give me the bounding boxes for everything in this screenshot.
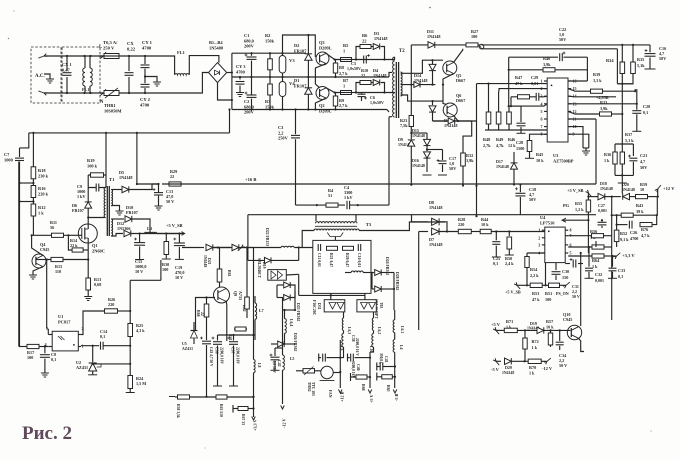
svg-text:L6,4: L6,4 bbox=[289, 319, 293, 326]
svg-text:22: 22 bbox=[362, 38, 366, 43]
svg-text:R68: R68 bbox=[361, 384, 365, 391]
svg-text:C10 0,01: C10 0,01 bbox=[357, 253, 361, 267]
svg-text:C20: C20 bbox=[643, 104, 650, 109]
svg-text:FR107: FR107 bbox=[72, 208, 84, 213]
svg-text:10 k: 10 k bbox=[546, 325, 554, 330]
rail pair to right bbox=[482, 44, 651, 46]
svg-text:10 V: 10 V bbox=[135, 269, 143, 274]
long rail y214.5 bbox=[248, 214, 596, 216]
svg-text:Q3: Q3 bbox=[319, 40, 325, 45]
svg-text:0,1: 0,1 bbox=[100, 334, 105, 339]
svg-text:R37: R37 bbox=[625, 132, 632, 137]
svg-text:C42: C42 bbox=[277, 360, 281, 367]
-5V output column bbox=[394, 310, 396, 320]
pin13 wire C20 bbox=[568, 103, 637, 105]
svg-text:8: 8 bbox=[570, 228, 572, 233]
Q10 emitter down bbox=[579, 338, 585, 351]
wire Q4 base down to U1 pin3 bbox=[46, 260, 48, 329]
pin11 wire to +16V riser bbox=[568, 118, 596, 120]
svg-text:1N4148: 1N4148 bbox=[444, 123, 458, 128]
svg-text:Рис. 2: Рис. 2 bbox=[22, 423, 72, 444]
svg-text:0,001: 0,001 bbox=[595, 278, 604, 283]
svg-text:R57: R57 bbox=[546, 319, 553, 324]
svg-text:1: 1 bbox=[538, 228, 540, 233]
svg-text:FL1: FL1 bbox=[82, 87, 89, 92]
ties from C7 line to divider bbox=[20, 182, 34, 184]
svg-text:R51: R51 bbox=[545, 291, 552, 296]
wire x137 from +16 node up to rail bbox=[136, 133, 138, 184]
zener pair at Q6 bbox=[432, 101, 434, 105]
svg-text:4,7 k: 4,7 k bbox=[641, 233, 650, 238]
svg-text:1 k: 1 k bbox=[38, 210, 44, 215]
svg-text:AZ431: AZ431 bbox=[76, 365, 88, 370]
svg-text:220 k: 220 k bbox=[38, 191, 49, 196]
svg-text:1N4148: 1N4148 bbox=[429, 205, 443, 210]
svg-text:+3,3 V: +3,3 V bbox=[622, 253, 635, 258]
C31 2,2 bbox=[565, 263, 570, 265]
capacitor C43 4,7 bbox=[200, 337, 203, 340]
svg-text:R67 33: R67 33 bbox=[241, 414, 245, 425]
svg-text:FR107: FR107 bbox=[294, 48, 307, 53]
rail y133 bbox=[29, 132, 230, 134]
svg-text:200V: 200V bbox=[244, 44, 255, 49]
svg-text:L3: L3 bbox=[147, 226, 153, 231]
svg-text:10 V: 10 V bbox=[175, 275, 183, 280]
svg-text:C21: C21 bbox=[640, 153, 647, 158]
svg-text:R34: R34 bbox=[606, 58, 614, 63]
svg-text:R6: R6 bbox=[362, 33, 368, 38]
svg-text:U3: U3 bbox=[553, 153, 559, 158]
svg-text:R63 510: R63 510 bbox=[219, 404, 223, 417]
svg-text:0,47: 0,47 bbox=[62, 67, 70, 72]
capacitor CX1 bbox=[66, 56, 68, 71]
svg-text:R35: R35 bbox=[637, 57, 644, 62]
svg-text:TTC 103: TTC 103 bbox=[311, 382, 315, 396]
svg-text:1 k: 1 k bbox=[532, 345, 538, 350]
svg-text:10 k: 10 k bbox=[536, 158, 544, 163]
svg-text:Q2: Q2 bbox=[319, 103, 325, 108]
svg-text:1500: 1500 bbox=[516, 146, 524, 151]
svg-text:2,4 k: 2,4 k bbox=[505, 261, 514, 266]
snubber box R20/R21/C10/C11 bbox=[313, 240, 371, 293]
svg-text:4700: 4700 bbox=[236, 69, 246, 74]
svg-text:1N4148: 1N4148 bbox=[119, 175, 133, 180]
zener pair at Q5 bbox=[432, 60, 434, 64]
wire L top bbox=[44, 55, 103, 57]
svg-text:T3: T3 bbox=[366, 222, 372, 227]
svg-text:50 V: 50 V bbox=[559, 363, 567, 368]
svg-text:100 k: 100 k bbox=[87, 163, 98, 168]
svg-text:R52: R52 bbox=[620, 231, 627, 236]
svg-text:1N4148: 1N4148 bbox=[427, 34, 441, 39]
svg-text:D667: D667 bbox=[456, 78, 465, 83]
svg-text:R61: R61 bbox=[227, 270, 231, 277]
svg-text:R54: R54 bbox=[530, 267, 538, 272]
svg-text:R53: R53 bbox=[532, 291, 539, 296]
svg-text:1N4148: 1N4148 bbox=[502, 371, 514, 375]
svg-text:T2: T2 bbox=[399, 49, 405, 54]
svg-text:1N4148: 1N4148 bbox=[496, 164, 509, 169]
secondary right lead bbox=[359, 222, 445, 231]
svg-text:T03: T03 bbox=[379, 302, 383, 308]
svg-text:U5: U5 bbox=[182, 342, 187, 346]
svg-text:+5 V_SB: +5 V_SB bbox=[505, 290, 521, 295]
svg-text:1 kV: 1 kV bbox=[344, 195, 353, 200]
svg-text:PC817: PC817 bbox=[58, 319, 71, 324]
svg-text:110: 110 bbox=[55, 269, 61, 274]
svg-text:D1: D1 bbox=[294, 78, 299, 83]
svg-text:2200,0 10V: 2200,0 10V bbox=[220, 347, 224, 364]
svg-text:2,2: 2,2 bbox=[278, 130, 284, 135]
svg-text:R2: R2 bbox=[265, 33, 270, 38]
T1 primary top from rail bbox=[105, 133, 107, 188]
T1 secondary lower to ground bbox=[111, 206, 119, 209]
svg-text:F16C20C: F16C20C bbox=[312, 300, 316, 316]
svg-text:+5 V_SB: +5 V_SB bbox=[567, 188, 584, 193]
svg-text:2,7 k: 2,7 k bbox=[339, 71, 348, 76]
rail +16V right end up bbox=[595, 121, 597, 184]
svg-text:C945: C945 bbox=[563, 317, 572, 322]
svg-text:10S050M: 10S050M bbox=[104, 108, 122, 113]
svg-text:C2: C2 bbox=[244, 99, 249, 104]
svg-text:1N4148: 1N4148 bbox=[203, 255, 207, 267]
secondary left lead bbox=[302, 231, 314, 248]
Q3 emitter to Q2 base bbox=[315, 64, 326, 88]
svg-text:R19: R19 bbox=[87, 158, 95, 163]
svg-text:1N4148: 1N4148 bbox=[374, 36, 388, 41]
big left arrow bbox=[562, 219, 588, 221]
svg-text:230 k: 230 k bbox=[38, 173, 49, 178]
Q5 collector up to rail bbox=[454, 49, 463, 63]
svg-text:10: 10 bbox=[640, 187, 644, 192]
svg-text:R46: R46 bbox=[508, 137, 515, 142]
svg-text:C41: C41 bbox=[384, 356, 388, 363]
scan specks bbox=[429, 7, 431, 9]
svg-text:R65: R65 bbox=[386, 385, 390, 392]
T2 secondary bottom lead to Q6 base bbox=[401, 95, 443, 101]
svg-text:0,01: 0,01 bbox=[531, 81, 538, 86]
svg-text:C30: C30 bbox=[562, 269, 569, 274]
Q1 source down bbox=[87, 243, 89, 278]
svg-text:3,9k: 3,9k bbox=[466, 158, 474, 163]
svg-text:+16 В: +16 В bbox=[245, 177, 256, 182]
svg-text:22 k: 22 k bbox=[70, 243, 78, 248]
svg-text:Q9: Q9 bbox=[233, 291, 238, 296]
svg-text:1N5408: 1N5408 bbox=[209, 45, 224, 50]
svg-text:47 k: 47 k bbox=[532, 297, 540, 302]
svg-text:AZ431: AZ431 bbox=[182, 347, 193, 351]
svg-text:CX: CX bbox=[127, 41, 134, 46]
svg-text:0,1: 0,1 bbox=[643, 110, 648, 115]
svg-text:SBL2040CT: SBL2040CT bbox=[257, 258, 261, 279]
svg-text:3: 3 bbox=[541, 94, 543, 99]
svg-text:D22 FR153: D22 FR153 bbox=[265, 228, 269, 246]
svg-text:4700: 4700 bbox=[140, 103, 150, 108]
svg-text:3,3 k: 3,3 k bbox=[593, 78, 602, 83]
svg-text:2200,0 16 V: 2200,0 16 V bbox=[355, 338, 359, 356]
svg-text:1 k: 1 k bbox=[529, 371, 535, 376]
svg-text:C26: C26 bbox=[630, 230, 637, 235]
rail mid bbox=[232, 76, 389, 78]
svg-text:LP7510: LP7510 bbox=[540, 220, 555, 225]
pin4 wire bbox=[509, 104, 548, 106]
svg-text:R76: R76 bbox=[641, 227, 648, 232]
svg-text:R12: R12 bbox=[38, 205, 46, 210]
svg-text:A.C.: A.C. bbox=[35, 74, 45, 79]
down to D20 junction bbox=[621, 175, 623, 182]
svg-text:680,0: 680,0 bbox=[244, 38, 255, 43]
svg-text:R55: R55 bbox=[575, 201, 582, 206]
svg-text:4700: 4700 bbox=[142, 46, 152, 51]
svg-text:+5 V: +5 V bbox=[369, 395, 374, 403]
svg-text:L6,2: L6,2 bbox=[377, 327, 381, 334]
svg-text:5,1k: 5,1k bbox=[637, 63, 645, 68]
svg-text:C40: C40 bbox=[356, 364, 360, 371]
svg-text:R5: R5 bbox=[343, 43, 349, 48]
svg-text:R45: R45 bbox=[536, 152, 543, 157]
svg-text:0,1: 0,1 bbox=[618, 274, 623, 279]
svg-text:R71: R71 bbox=[506, 319, 513, 324]
svg-text:220: 220 bbox=[458, 222, 464, 227]
svg-text:D29: D29 bbox=[505, 365, 512, 370]
svg-text:0,001: 0,001 bbox=[598, 208, 607, 213]
svg-text:THR1: THR1 bbox=[104, 103, 116, 108]
svg-text:U4: U4 bbox=[540, 215, 546, 220]
Q2 collector node bbox=[326, 88, 341, 93]
svg-text:1,5 M: 1,5 M bbox=[136, 381, 146, 386]
svg-text:0,22: 0,22 bbox=[127, 47, 136, 52]
svg-text:1,2 k: 1,2 k bbox=[575, 207, 584, 212]
svg-text:L8: L8 bbox=[257, 363, 261, 368]
svg-text:A733: A733 bbox=[238, 291, 243, 300]
svg-text:1N4148: 1N4148 bbox=[412, 163, 425, 168]
svg-text:CX 1: CX 1 bbox=[62, 62, 72, 67]
R40/C22 loop bbox=[508, 57, 510, 106]
svg-text:-12 V: -12 V bbox=[542, 366, 553, 371]
svg-text:9,1 k: 9,1 k bbox=[620, 237, 629, 242]
svg-text:22: 22 bbox=[200, 312, 204, 316]
svg-text:+5 V: +5 V bbox=[491, 322, 501, 327]
R21 0,47 bbox=[327, 246, 338, 250]
svg-text:6: 6 bbox=[541, 117, 543, 122]
svg-text:D28 FR302: D28 FR302 bbox=[395, 272, 399, 290]
svg-text:200V: 200V bbox=[244, 110, 255, 115]
wire to Q3 base bbox=[283, 35, 316, 57]
Q4 collector to R11 node bbox=[32, 235, 43, 255]
R61 column bbox=[217, 246, 219, 248]
svg-text:R18: R18 bbox=[38, 168, 46, 173]
svg-text:1N4148: 1N4148 bbox=[412, 133, 425, 138]
svg-text:D31: D31 bbox=[317, 303, 321, 310]
svg-text:FR107: FR107 bbox=[126, 210, 138, 215]
svg-text:1,0x50V: 1,0x50V bbox=[347, 66, 361, 71]
pin1 wire bbox=[477, 83, 548, 85]
svg-text:22: 22 bbox=[361, 73, 365, 78]
rail from bottom to left chain bbox=[229, 110, 231, 133]
svg-text:C945: C945 bbox=[40, 247, 49, 252]
svg-text:D25 FR302: D25 FR302 bbox=[296, 303, 300, 321]
svg-text:47 k: 47 k bbox=[515, 81, 523, 86]
svg-text:R60: R60 bbox=[196, 310, 200, 317]
svg-text:D19: D19 bbox=[530, 321, 537, 326]
svg-text:FL1: FL1 bbox=[177, 50, 185, 55]
diode D8 bbox=[412, 215, 429, 222]
svg-text:C1: C1 bbox=[244, 33, 249, 38]
svg-text:5: 5 bbox=[570, 251, 572, 256]
svg-text:680,0: 680,0 bbox=[244, 104, 255, 109]
+3,3V output arrow bbox=[252, 417, 256, 421]
R20 0,47 bbox=[343, 246, 354, 250]
svg-text:50V: 50V bbox=[640, 165, 647, 170]
svg-text:2,2 k: 2,2 k bbox=[530, 273, 539, 278]
svg-text:R38 1,5k: R38 1,5k bbox=[176, 404, 180, 419]
tie to D15 chain bbox=[411, 132, 427, 134]
svg-text:56: 56 bbox=[50, 225, 54, 230]
svg-text:4700: 4700 bbox=[630, 236, 638, 241]
svg-text:12 k: 12 k bbox=[508, 143, 516, 148]
svg-text:R39: R39 bbox=[593, 72, 600, 77]
svg-text:3,9k: 3,9k bbox=[600, 106, 608, 111]
wire to R24 bbox=[93, 363, 131, 365]
svg-text:R70: R70 bbox=[529, 365, 536, 370]
svg-text:1N4148: 1N4148 bbox=[600, 186, 613, 191]
svg-text:50 V: 50 V bbox=[572, 294, 580, 299]
svg-text:1000: 1000 bbox=[4, 157, 14, 162]
svg-text:50V: 50V bbox=[659, 56, 666, 61]
svg-text:250 V: 250 V bbox=[103, 46, 115, 51]
+12V output column bbox=[339, 340, 341, 388]
svg-text:1N4148: 1N4148 bbox=[373, 73, 387, 78]
bridge DC output wires bbox=[227, 72, 232, 74]
svg-text:3,9k: 3,9k bbox=[543, 62, 551, 67]
C10 0,01 bbox=[358, 244, 361, 251]
svg-text:FAN: FAN bbox=[328, 390, 332, 398]
svg-text:THR2: THR2 bbox=[307, 382, 311, 392]
svg-text:5: 5 bbox=[541, 109, 543, 114]
rect box input stubs bbox=[330, 293, 332, 299]
wire N bottom bbox=[44, 92, 103, 94]
svg-text:B1...B4: B1...B4 bbox=[209, 40, 223, 45]
svg-text:C32: C32 bbox=[595, 272, 602, 277]
svg-text:50V: 50V bbox=[449, 166, 456, 171]
svg-text:R72: R72 bbox=[532, 339, 539, 344]
svg-text:U1: U1 bbox=[58, 314, 63, 319]
svg-text:CY 1: CY 1 bbox=[142, 40, 153, 45]
svg-text:100: 100 bbox=[471, 34, 477, 39]
svg-text:R3: R3 bbox=[265, 99, 271, 104]
svg-text:150k: 150k bbox=[265, 104, 275, 109]
3,3V wire with coil bbox=[238, 248, 242, 251]
svg-text:22: 22 bbox=[170, 174, 174, 179]
svg-text:2200,0 16V: 2200,0 16V bbox=[351, 361, 355, 378]
Q3 collector node bbox=[326, 53, 341, 59]
svg-text:1: 1 bbox=[343, 48, 345, 53]
svg-text:5,1 k: 5,1 k bbox=[625, 138, 634, 143]
svg-text:T1: T1 bbox=[109, 177, 115, 182]
svg-text:2200,0 10V: 2200,0 10V bbox=[236, 347, 240, 364]
svg-text:C29: C29 bbox=[531, 75, 538, 80]
U1 pin2 wire up to R26 bbox=[81, 311, 105, 335]
svg-text:L7: L7 bbox=[259, 308, 264, 313]
svg-text:4,7k: 4,7k bbox=[496, 143, 504, 148]
svg-text:C11 0,01: C11 0,01 bbox=[317, 253, 321, 267]
rail +310V top bbox=[232, 52, 306, 54]
svg-text:D209L: D209L bbox=[319, 108, 332, 113]
svg-text:R7: R7 bbox=[343, 78, 349, 83]
main 3.3V column with L8 bbox=[253, 248, 255, 360]
svg-text:CY 3: CY 3 bbox=[236, 64, 246, 69]
vertical x622 down to R37 bbox=[621, 84, 623, 144]
svg-text:51: 51 bbox=[328, 193, 332, 198]
vertical from C15 area down / R25 bbox=[129, 280, 131, 364]
svg-text:L4: L4 bbox=[399, 345, 403, 350]
T2 center tap bbox=[401, 84, 436, 86]
svg-text:100: 100 bbox=[545, 297, 551, 302]
svg-text:0,1: 0,1 bbox=[51, 357, 56, 362]
svg-text:220: 220 bbox=[108, 302, 114, 307]
svg-text:L6.1: L6.1 bbox=[400, 326, 404, 333]
svg-text:1 k: 1 k bbox=[604, 158, 610, 163]
svg-text:2N60C: 2N60C bbox=[92, 248, 105, 253]
svg-text:C7: C7 bbox=[4, 152, 10, 157]
diode D23 bbox=[232, 244, 239, 250]
T1 primary bottom to Q1 drain bbox=[88, 217, 105, 219]
pin2 wire bbox=[499, 89, 547, 92]
diode D20b on 3.3V riser bbox=[248, 259, 265, 261]
svg-text:50 V: 50 V bbox=[166, 199, 174, 204]
svg-text:D209L: D209L bbox=[319, 45, 332, 50]
svg-text:L: L bbox=[99, 45, 102, 50]
svg-text:D667: D667 bbox=[456, 98, 465, 103]
svg-text:4,7: 4,7 bbox=[640, 159, 645, 164]
svg-text:150k: 150k bbox=[265, 38, 275, 43]
svg-text:-5 В: -5 В bbox=[394, 393, 399, 401]
svg-text:1 kV: 1 kV bbox=[77, 194, 86, 199]
svg-text:R43: R43 bbox=[636, 203, 643, 208]
svg-text:1N4148: 1N4148 bbox=[622, 187, 635, 192]
svg-text:D2: D2 bbox=[294, 43, 299, 48]
filter choke FL1 (in box) bbox=[83, 68, 85, 86]
AC input dashed enclosure bbox=[31, 47, 61, 103]
svg-text:+12 В: +12 В bbox=[340, 391, 345, 402]
connector arrows L/N bbox=[100, 55, 104, 59]
svg-text:100: 100 bbox=[27, 355, 33, 360]
svg-text:39 k: 39 k bbox=[636, 209, 644, 214]
svg-text:L5: L5 bbox=[290, 357, 295, 361]
svg-text:150: 150 bbox=[562, 275, 568, 280]
coil on 12V path bbox=[351, 271, 363, 273]
svg-text:1: 1 bbox=[541, 79, 543, 84]
svg-text:1: 1 bbox=[343, 83, 345, 88]
svg-text:C28: C28 bbox=[516, 140, 523, 145]
svg-text:R8: R8 bbox=[339, 65, 344, 70]
C11 0,01 bbox=[318, 244, 321, 251]
svg-text:R64: R64 bbox=[592, 258, 600, 263]
+5V output column bbox=[369, 352, 371, 388]
connector circle bbox=[479, 44, 484, 49]
svg-text:3: 3 bbox=[538, 242, 540, 247]
left long vertical to R17 bbox=[18, 162, 20, 347]
svg-text:AZ7500BP: AZ7500BP bbox=[553, 158, 574, 163]
svg-text:-5 V: -5 V bbox=[491, 367, 500, 372]
svg-text:C3: C3 bbox=[278, 125, 284, 130]
svg-text:C38: C38 bbox=[351, 335, 355, 342]
svg-text:R49: R49 bbox=[496, 137, 503, 142]
Q9 emitter down bbox=[225, 301, 228, 342]
svg-text:50V: 50V bbox=[559, 37, 566, 42]
rail bottom bbox=[232, 109, 387, 111]
svg-text:+5 V_SB: +5 V_SB bbox=[166, 223, 183, 228]
